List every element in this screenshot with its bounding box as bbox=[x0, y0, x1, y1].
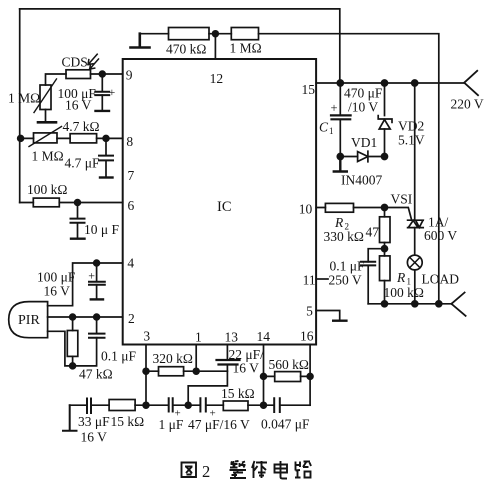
capacitor 4.7uF wires bbox=[105, 138, 107, 177]
wire rheostat bottom to ground bbox=[45, 110, 47, 122]
svg-text:VD1: VD1 bbox=[351, 135, 377, 150]
svg-text:CDS: CDS bbox=[62, 55, 88, 70]
capacitor 10uF wires bbox=[77, 203, 79, 239]
glyph zheng (whole) bbox=[230, 461, 247, 478]
capacitor 0.1uF 250V plates bbox=[361, 262, 375, 266]
svg-text:15 kΩ: 15 kΩ bbox=[111, 414, 145, 429]
resistor 1M top bbox=[231, 28, 258, 40]
svg-text:1: 1 bbox=[195, 330, 202, 345]
capacitor 100uF (pin4) wires bbox=[96, 263, 98, 299]
svg-text:5: 5 bbox=[306, 304, 313, 319]
wire CDS left to rheostat top bbox=[46, 74, 67, 85]
glyph tu (figure) bbox=[182, 463, 197, 478]
svg-text:4: 4 bbox=[127, 256, 134, 271]
capacitor 0.1uF plates bbox=[89, 334, 105, 338]
svg-text:47 μF/16 V: 47 μF/16 V bbox=[188, 417, 250, 432]
svg-text:VSI: VSI bbox=[391, 192, 413, 207]
svg-text:+: + bbox=[88, 269, 95, 283]
resistor 4.7k body bbox=[70, 134, 97, 143]
svg-text:14: 14 bbox=[257, 329, 271, 344]
resistor 47k body bbox=[67, 331, 78, 357]
svg-text:1: 1 bbox=[329, 126, 334, 136]
wire pin 12 stub bbox=[214, 34, 216, 59]
svg-text:15: 15 bbox=[302, 82, 316, 97]
ground below C1 bbox=[334, 157, 347, 172]
svg-text:1 MΩ: 1 MΩ bbox=[32, 149, 64, 164]
svg-text:+: + bbox=[109, 85, 116, 99]
wire pin 4 net bbox=[48, 263, 123, 306]
wire 47k top/bottom bbox=[72, 317, 74, 366]
wire CDS right to pin 9 bbox=[91, 73, 123, 75]
lamp LOAD body bbox=[407, 255, 422, 270]
ground top-left of 470k row bbox=[131, 34, 150, 48]
svg-text:33 μF: 33 μF bbox=[78, 414, 110, 429]
capacitor 100uF wires bbox=[101, 74, 103, 110]
wire pin 13 column + 22uF branch bbox=[188, 345, 227, 406]
resistor 15k left body bbox=[109, 400, 135, 411]
capacitor 22uF plates bbox=[217, 360, 240, 365]
node bottom long rail bbox=[436, 301, 442, 307]
svg-text:5.1V: 5.1V bbox=[398, 133, 425, 148]
wire 560k row bbox=[264, 375, 311, 377]
connector load fork bbox=[451, 293, 465, 316]
node pin15/VD2 bbox=[382, 80, 388, 86]
capacitor 1uF plates bbox=[169, 398, 173, 411]
svg-text:47 kΩ: 47 kΩ bbox=[79, 367, 113, 382]
capacitor 47uF plates bbox=[200, 398, 205, 411]
resistor 320k body bbox=[159, 367, 184, 376]
svg-text:3: 3 bbox=[143, 329, 150, 344]
node 47/R1 bbox=[382, 246, 388, 252]
node C1/VD1 bbox=[337, 154, 343, 160]
wire top rail from left column to C1 column bbox=[20, 9, 340, 83]
svg-text:VD2: VD2 bbox=[398, 119, 424, 134]
wire pin 5 to ground bbox=[316, 311, 340, 321]
svg-text:100 kΩ: 100 kΩ bbox=[27, 182, 67, 197]
wire PIR bottom terminal bbox=[48, 331, 73, 366]
wire pin 10 row bbox=[316, 207, 384, 209]
ground bar below 10uF bbox=[71, 237, 85, 239]
svg-text:100 kΩ: 100 kΩ bbox=[384, 285, 424, 300]
node CDS/cap junction bbox=[99, 71, 105, 77]
svg-text:R: R bbox=[334, 215, 344, 230]
wire pin 3 column bbox=[145, 345, 147, 406]
svg-text:1 MΩ: 1 MΩ bbox=[8, 91, 40, 106]
rheostat 1M vertical body bbox=[40, 85, 51, 110]
capacitor 10uF plates bbox=[71, 219, 85, 223]
ground pin 5 bbox=[333, 320, 346, 322]
resistor 15k right body bbox=[223, 401, 248, 411]
ground bottom left bbox=[63, 405, 77, 431]
svg-text:11: 11 bbox=[303, 273, 316, 288]
wire left vertical rail bbox=[19, 9, 21, 203]
wire bottom row bbox=[70, 404, 310, 406]
svg-text:47: 47 bbox=[366, 225, 380, 240]
svg-text:12: 12 bbox=[210, 71, 224, 86]
svg-text:100 μF: 100 μF bbox=[37, 270, 76, 285]
svg-text:C: C bbox=[319, 120, 329, 135]
node pin14/560k bbox=[261, 374, 267, 380]
svg-text:2: 2 bbox=[128, 311, 135, 326]
node pin16/560k bbox=[307, 374, 313, 380]
wire pin 1 column bbox=[195, 345, 197, 372]
wire triac column bbox=[414, 83, 416, 255]
wire gate to triac bbox=[385, 208, 412, 220]
ground below rheostat bbox=[38, 121, 56, 124]
node 47k bottom bbox=[70, 363, 76, 369]
wire pin 2 row bbox=[48, 316, 123, 318]
rheostat 1M horizontal body bbox=[34, 133, 58, 143]
svg-text:R: R bbox=[396, 270, 406, 285]
ground bar below 100uF (pin4) bbox=[91, 298, 103, 300]
wire lamp bottom bbox=[414, 270, 416, 304]
svg-text:16 V: 16 V bbox=[81, 430, 108, 445]
svg-text:7: 7 bbox=[128, 168, 135, 183]
glyph ti (body) bbox=[252, 461, 267, 478]
svg-text:1 MΩ: 1 MΩ bbox=[230, 41, 262, 56]
ground bar below 100uF bbox=[96, 110, 110, 112]
svg-text:16 V: 16 V bbox=[233, 361, 260, 376]
capacitor 100uF (pin4) plates bbox=[89, 282, 105, 285]
wire R1 bottom bbox=[384, 281, 386, 304]
node pin15/triac column bbox=[412, 80, 418, 86]
wire VD1 row bbox=[340, 156, 384, 158]
node left rail / pin8 row bbox=[18, 136, 24, 142]
node pin10/gate bbox=[382, 205, 388, 211]
capacitor 100uF top: plates bbox=[95, 92, 109, 95]
triac VS1 body bbox=[408, 220, 424, 227]
node pin8/4.7uF junction bbox=[103, 136, 109, 142]
svg-text:4.7 kΩ: 4.7 kΩ bbox=[63, 119, 100, 134]
node pin4/100uF bbox=[94, 260, 100, 266]
diode VD1 body bbox=[358, 151, 368, 162]
capacitor 4.7uF plates bbox=[99, 156, 113, 161]
node pin2/47k bbox=[70, 314, 76, 320]
node junction pin12/470k bbox=[213, 31, 219, 37]
svg-text:0.047 μF: 0.047 μF bbox=[261, 417, 310, 432]
svg-text:2: 2 bbox=[202, 462, 210, 481]
resistor 100k body bbox=[33, 198, 59, 207]
svg-text:600 V: 600 V bbox=[424, 228, 457, 243]
wire 320k row bbox=[146, 370, 227, 372]
svg-text:8: 8 bbox=[126, 134, 133, 149]
resistor R2 body bbox=[325, 203, 353, 212]
svg-text:PIR: PIR bbox=[18, 313, 40, 328]
wire 47 column bbox=[384, 208, 386, 256]
photoresistor CDS arrows bbox=[88, 54, 99, 69]
wire 470k row bbox=[140, 34, 439, 304]
node pin1/320k bbox=[193, 368, 199, 374]
svg-text:220 V: 220 V bbox=[451, 97, 484, 112]
resistor 470k bbox=[169, 28, 210, 40]
wire pin 8 row bbox=[20, 137, 123, 139]
resistor 47 body bbox=[380, 217, 391, 243]
capacitor C1 470uF plates bbox=[331, 115, 351, 119]
wire pin 11 stub bbox=[316, 278, 328, 280]
wire VD2 column bbox=[384, 83, 386, 157]
wire pin 15 row bbox=[316, 82, 464, 84]
svg-text:10 μ F: 10 μ F bbox=[84, 222, 119, 237]
photoresistor CDS body bbox=[66, 70, 91, 79]
svg-text:16 V: 16 V bbox=[44, 284, 71, 299]
svg-text:250 V: 250 V bbox=[329, 273, 362, 288]
node pin15/C1 bbox=[337, 80, 343, 86]
capacitor 33uF plates bbox=[87, 399, 91, 414]
PIR sensor body bbox=[9, 302, 48, 338]
svg-text:9: 9 bbox=[126, 68, 133, 83]
svg-text:LOAD: LOAD bbox=[422, 272, 460, 287]
resistor R1 body bbox=[380, 256, 391, 281]
svg-text:16 V: 16 V bbox=[65, 98, 92, 113]
node VD1/VD2 bbox=[382, 154, 388, 160]
node bottom lamp bbox=[412, 301, 418, 307]
svg-text:16: 16 bbox=[300, 329, 314, 344]
rheostat 1M arrow bbox=[34, 79, 57, 113]
rheostat 1M horizontal arrow bbox=[29, 127, 62, 147]
svg-text:470 μF: 470 μF bbox=[344, 86, 383, 101]
node pin3/bottom row bbox=[143, 402, 149, 408]
wire pin 14 column bbox=[263, 345, 265, 406]
svg-text:IC: IC bbox=[217, 199, 232, 215]
svg-text:1 μF: 1 μF bbox=[159, 417, 184, 432]
capacitor 0.1uF 250V branch wires bbox=[368, 249, 384, 304]
capacitor 0.1uF wires bbox=[73, 317, 97, 366]
svg-text:4.7 μF: 4.7 μF bbox=[65, 156, 100, 171]
svg-text:+: + bbox=[331, 101, 338, 115]
wire pin 6 row bbox=[20, 202, 123, 204]
svg-text:/10 V: /10 V bbox=[348, 100, 378, 115]
svg-text:0.1 μF: 0.1 μF bbox=[101, 349, 136, 364]
wire pin 16 column bbox=[309, 345, 311, 406]
op-amp IC box bbox=[123, 59, 316, 345]
svg-text:13: 13 bbox=[225, 330, 239, 345]
svg-text:0.1 μF: 0.1 μF bbox=[330, 259, 365, 274]
node pin2/0.1uF bbox=[94, 314, 100, 320]
svg-text:560 kΩ: 560 kΩ bbox=[269, 357, 309, 372]
ground bar below 4.7uF bbox=[100, 176, 113, 178]
connector 220V fork bbox=[464, 71, 478, 95]
svg-text:6: 6 bbox=[128, 198, 135, 213]
capacitor 0.047uF plates bbox=[274, 398, 280, 412]
glyph dian (electric) bbox=[275, 461, 288, 479]
resistor 560k body bbox=[275, 372, 301, 382]
node pin14/bottom row bbox=[261, 402, 267, 408]
wire bottom right row bbox=[368, 303, 451, 305]
capacitor C1 wires bbox=[339, 83, 341, 170]
svg-text:15 kΩ: 15 kΩ bbox=[221, 386, 255, 401]
svg-text:330 kΩ: 330 kΩ bbox=[324, 229, 364, 244]
svg-text:470 kΩ: 470 kΩ bbox=[166, 42, 206, 57]
svg-text:IN4007: IN4007 bbox=[341, 173, 382, 188]
zener VD2 body bbox=[378, 116, 392, 129]
node pin3/320k bbox=[143, 368, 149, 374]
node pin6/10uF junction bbox=[75, 200, 81, 206]
glyph lu (road) bbox=[295, 462, 311, 478]
node bottom R1 bbox=[382, 301, 388, 307]
svg-text:320 kΩ: 320 kΩ bbox=[153, 351, 193, 366]
svg-text:10: 10 bbox=[299, 202, 313, 217]
node riser/bottom row bbox=[185, 402, 191, 408]
